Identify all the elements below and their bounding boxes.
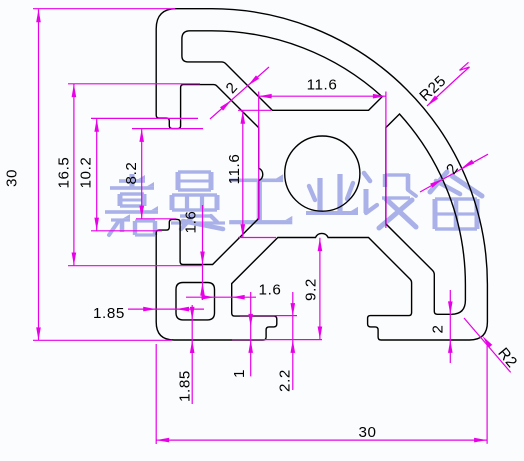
svg-text:1.85: 1.85: [93, 305, 125, 322]
svg-text:9.2: 9.2: [302, 278, 319, 301]
svg-text:2: 2: [429, 324, 446, 333]
svg-text:1.6: 1.6: [259, 281, 282, 298]
svg-text:1.85: 1.85: [176, 370, 193, 402]
svg-text:16.5: 16.5: [55, 157, 72, 189]
svg-text:11.6: 11.6: [307, 76, 338, 93]
svg-text:1: 1: [231, 369, 248, 378]
svg-text:2.2: 2.2: [276, 369, 293, 392]
svg-text:11.6: 11.6: [226, 154, 243, 185]
svg-text:30: 30: [3, 169, 20, 187]
svg-text:1.6: 1.6: [182, 211, 199, 234]
svg-text:8.2: 8.2: [123, 162, 140, 185]
svg-text:10.2: 10.2: [77, 157, 94, 189]
svg-text:30: 30: [358, 424, 376, 441]
